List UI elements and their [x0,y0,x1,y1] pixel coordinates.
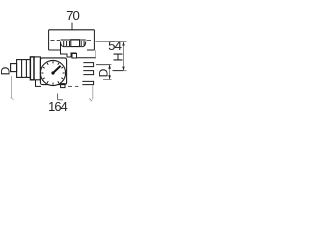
svg-text:70: 70 [66,8,79,23]
svg-text:D: D [96,68,110,77]
svg-text:164: 164 [48,99,67,114]
svg-text:54: 54 [108,38,121,53]
